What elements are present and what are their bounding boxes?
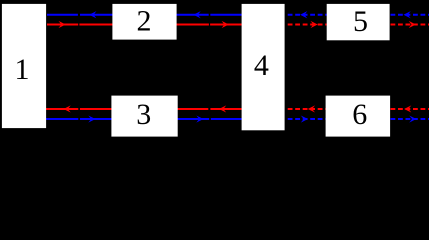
svg-text:5: 5 bbox=[353, 5, 368, 38]
box 4 bbox=[242, 4, 285, 130]
arrowhead red right seg1-2 bbox=[59, 21, 66, 28]
wire top blue dashed seg4-5 bbox=[288, 14, 327, 16]
arrowhead blue right seg1-3 bbox=[88, 115, 95, 122]
wire bottom red solid seg3-4a bbox=[80, 108, 208, 110]
arrowhead blue left seg4-5 bbox=[300, 11, 307, 18]
arrowhead blue left seg5-edge bbox=[404, 11, 411, 18]
wire top blue dashed seg5-edge bbox=[391, 14, 429, 16]
arrowhead blue right seg4-6 bbox=[301, 115, 308, 122]
wire bottom blue solid seg3-4b bbox=[211, 118, 242, 120]
svg-text:2: 2 bbox=[137, 5, 152, 38]
box 3 bbox=[111, 96, 177, 137]
wire bottom red solid seg3-4b bbox=[210, 108, 241, 110]
arrowhead blue left seg2-4 bbox=[194, 11, 201, 18]
box 2 bbox=[112, 4, 176, 40]
box 1 bbox=[2, 4, 46, 128]
box 6 bbox=[326, 96, 391, 137]
wire top red solid seg1-2 bbox=[47, 24, 78, 26]
svg-text:6: 6 bbox=[352, 98, 367, 131]
svg-text:1: 1 bbox=[15, 53, 30, 86]
wire top red solid seg2-4b bbox=[210, 24, 242, 26]
wire top blue solid seg1-2 bbox=[47, 14, 78, 16]
arrowhead red left seg1-3 bbox=[64, 105, 71, 112]
arrowhead red left seg4-6 bbox=[308, 105, 315, 112]
wire bottom red solid seg1-3 bbox=[46, 108, 78, 110]
wire top red dashed seg5-edge bbox=[391, 24, 429, 26]
arrowhead red right seg4-5 bbox=[311, 21, 318, 28]
arrowhead red left seg6-edge bbox=[404, 105, 411, 112]
wire bottom red dashed seg4-6 bbox=[288, 108, 326, 110]
wire top blue solid seg2-4a bbox=[80, 14, 209, 16]
arrowhead blue left seg1-2 bbox=[89, 11, 96, 18]
arrowhead blue right seg3-4 bbox=[196, 115, 203, 122]
wire bottom blue solid seg1-3 bbox=[46, 118, 78, 120]
arrowhead red right seg5-edge bbox=[409, 21, 416, 28]
wire top red dashed seg4-5 bbox=[288, 24, 327, 26]
arrowhead red left seg3-4 bbox=[219, 105, 226, 112]
box 5 bbox=[327, 4, 390, 40]
svg-text:4: 4 bbox=[254, 49, 269, 82]
arrowhead red right seg2-4 bbox=[222, 21, 229, 28]
wire bottom blue solid seg3-4a bbox=[80, 118, 209, 120]
wire bottom blue dashed seg4-6 bbox=[288, 118, 326, 120]
svg-text:3: 3 bbox=[136, 98, 151, 131]
wire top red solid seg2-4a bbox=[79, 24, 209, 26]
wire top blue solid seg2-4b bbox=[210, 14, 241, 16]
wire bottom blue dashed seg6-edge bbox=[391, 118, 429, 120]
arrowhead blue right seg6-edge bbox=[409, 115, 416, 122]
wire bottom red dashed seg6-edge bbox=[391, 108, 429, 110]
